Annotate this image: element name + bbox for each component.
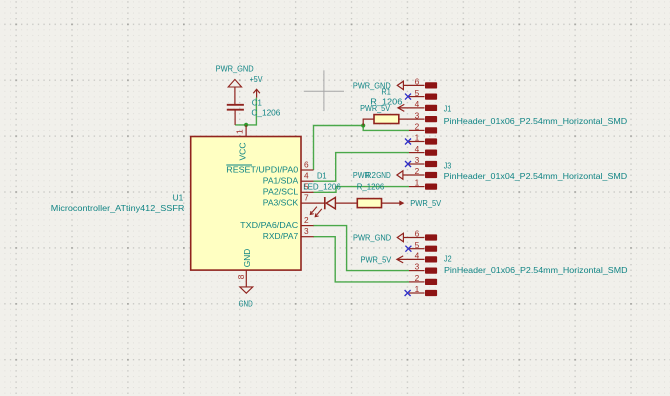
svg-text:PinHeader_01x04_P2.54mm_Horizo: PinHeader_01x04_P2.54mm_Horizontal_SMD (444, 171, 628, 181)
svg-text:GND: GND (239, 298, 253, 308)
svg-text:PWR_5V: PWR_5V (410, 198, 441, 208)
svg-text:2: 2 (415, 273, 420, 283)
svg-text:5: 5 (415, 240, 420, 250)
svg-text:4: 4 (415, 144, 420, 154)
svg-text:D1: D1 (317, 170, 327, 180)
svg-text:3: 3 (415, 262, 420, 272)
svg-text:PA3/SCK: PA3/SCK (263, 198, 299, 208)
svg-text:6: 6 (415, 229, 420, 239)
svg-text:RESET/UPDI/PA0: RESET/UPDI/PA0 (226, 164, 298, 174)
svg-text:PWR_GND: PWR_GND (353, 232, 391, 242)
svg-text:4: 4 (415, 99, 420, 109)
svg-text:TXD/PA6/DAC: TXD/PA6/DAC (240, 220, 298, 230)
svg-text:4: 4 (304, 171, 309, 181)
svg-text:RXD/PA7: RXD/PA7 (263, 231, 299, 241)
svg-text:R_1206: R_1206 (357, 182, 385, 192)
svg-text:5: 5 (415, 88, 420, 98)
svg-text:2: 2 (415, 122, 420, 132)
svg-text:1: 1 (415, 133, 420, 143)
svg-text:PWR_5V: PWR_5V (360, 103, 390, 113)
svg-text:3: 3 (415, 155, 420, 165)
svg-text:1: 1 (415, 178, 420, 188)
svg-text:J1: J1 (444, 104, 452, 114)
svg-text:7: 7 (304, 193, 309, 203)
svg-text:2: 2 (304, 215, 309, 225)
svg-text:PA1/SDA: PA1/SDA (263, 176, 299, 186)
svg-text:PinHeader_01x06_P2.54mm_Horizo: PinHeader_01x06_P2.54mm_Horizontal_SMD (444, 116, 628, 126)
svg-text:J3: J3 (444, 160, 452, 170)
svg-text:LED_1206: LED_1206 (303, 182, 341, 192)
svg-text:3: 3 (415, 110, 420, 120)
svg-text:Microcontroller_ATtiny412_SSFR: Microcontroller_ATtiny412_SSFR (51, 203, 185, 213)
svg-text:6: 6 (304, 159, 309, 169)
svg-text:1: 1 (235, 129, 245, 134)
svg-text:R2: R2 (366, 170, 376, 180)
svg-text:3: 3 (304, 226, 309, 236)
svg-text:U1: U1 (173, 192, 184, 202)
svg-text:1: 1 (415, 284, 420, 294)
svg-text:PWR_5V: PWR_5V (361, 254, 392, 264)
svg-text:PWR_GND: PWR_GND (353, 80, 391, 90)
svg-text:C_1206: C_1206 (251, 107, 280, 117)
svg-text:6: 6 (415, 77, 420, 87)
svg-text:PWR_GND: PWR_GND (216, 63, 254, 73)
svg-text:4: 4 (415, 251, 420, 261)
svg-text:C1: C1 (252, 98, 262, 108)
svg-text:J2: J2 (444, 254, 452, 264)
svg-text:2: 2 (415, 166, 420, 176)
svg-text:PA2/SCL: PA2/SCL (263, 187, 299, 197)
svg-text:PinHeader_01x06_P2.54mm_Horizo: PinHeader_01x06_P2.54mm_Horizontal_SMD (444, 265, 628, 275)
svg-text:VCC: VCC (237, 143, 247, 161)
svg-text:GND: GND (376, 170, 391, 180)
svg-text:+5V: +5V (250, 74, 263, 84)
svg-text:GND: GND (242, 249, 252, 268)
svg-text:8: 8 (236, 274, 246, 279)
